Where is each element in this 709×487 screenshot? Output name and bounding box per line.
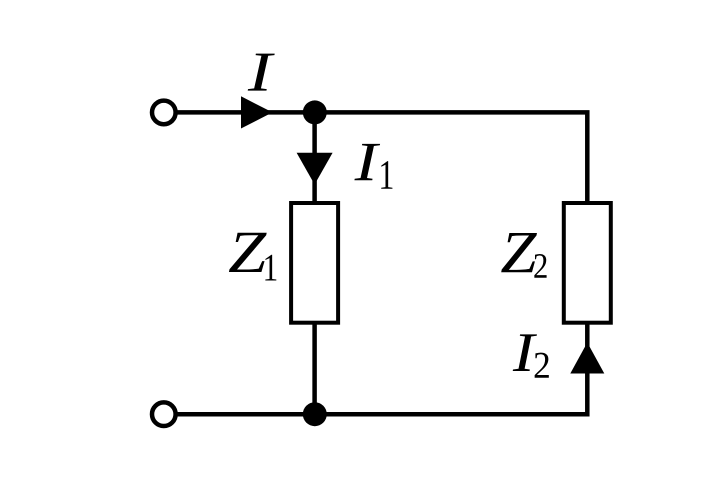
current arrow I1 (points down on middle branch) (297, 153, 333, 185)
wire bottom rail and lower right branch up to Z2 bottom (166, 321, 587, 414)
label Z2 (501, 233, 537, 272)
label I1 (354, 144, 380, 180)
current arrow I (points right on top rail) (241, 96, 273, 128)
terminal (open circle) bottom left (152, 402, 176, 426)
node junction dot bottom (303, 402, 327, 426)
terminal (open circle) top left (152, 101, 176, 125)
wire middle branch from top node to Z1 top (312, 112, 317, 205)
impedance Z2 (rectangle) (564, 203, 611, 323)
current arrow I2 (points up on lower right branch) (570, 343, 604, 374)
wire from Z1 bottom to bottom node (312, 321, 317, 414)
wire top rail from input terminal to top-right corner, then down to Z2 top (166, 112, 587, 205)
label Z1 (229, 233, 267, 272)
impedance Z1 (rectangle) (291, 203, 338, 323)
label I (248, 54, 275, 91)
node junction dot top (303, 100, 327, 124)
label I2 (513, 334, 537, 371)
